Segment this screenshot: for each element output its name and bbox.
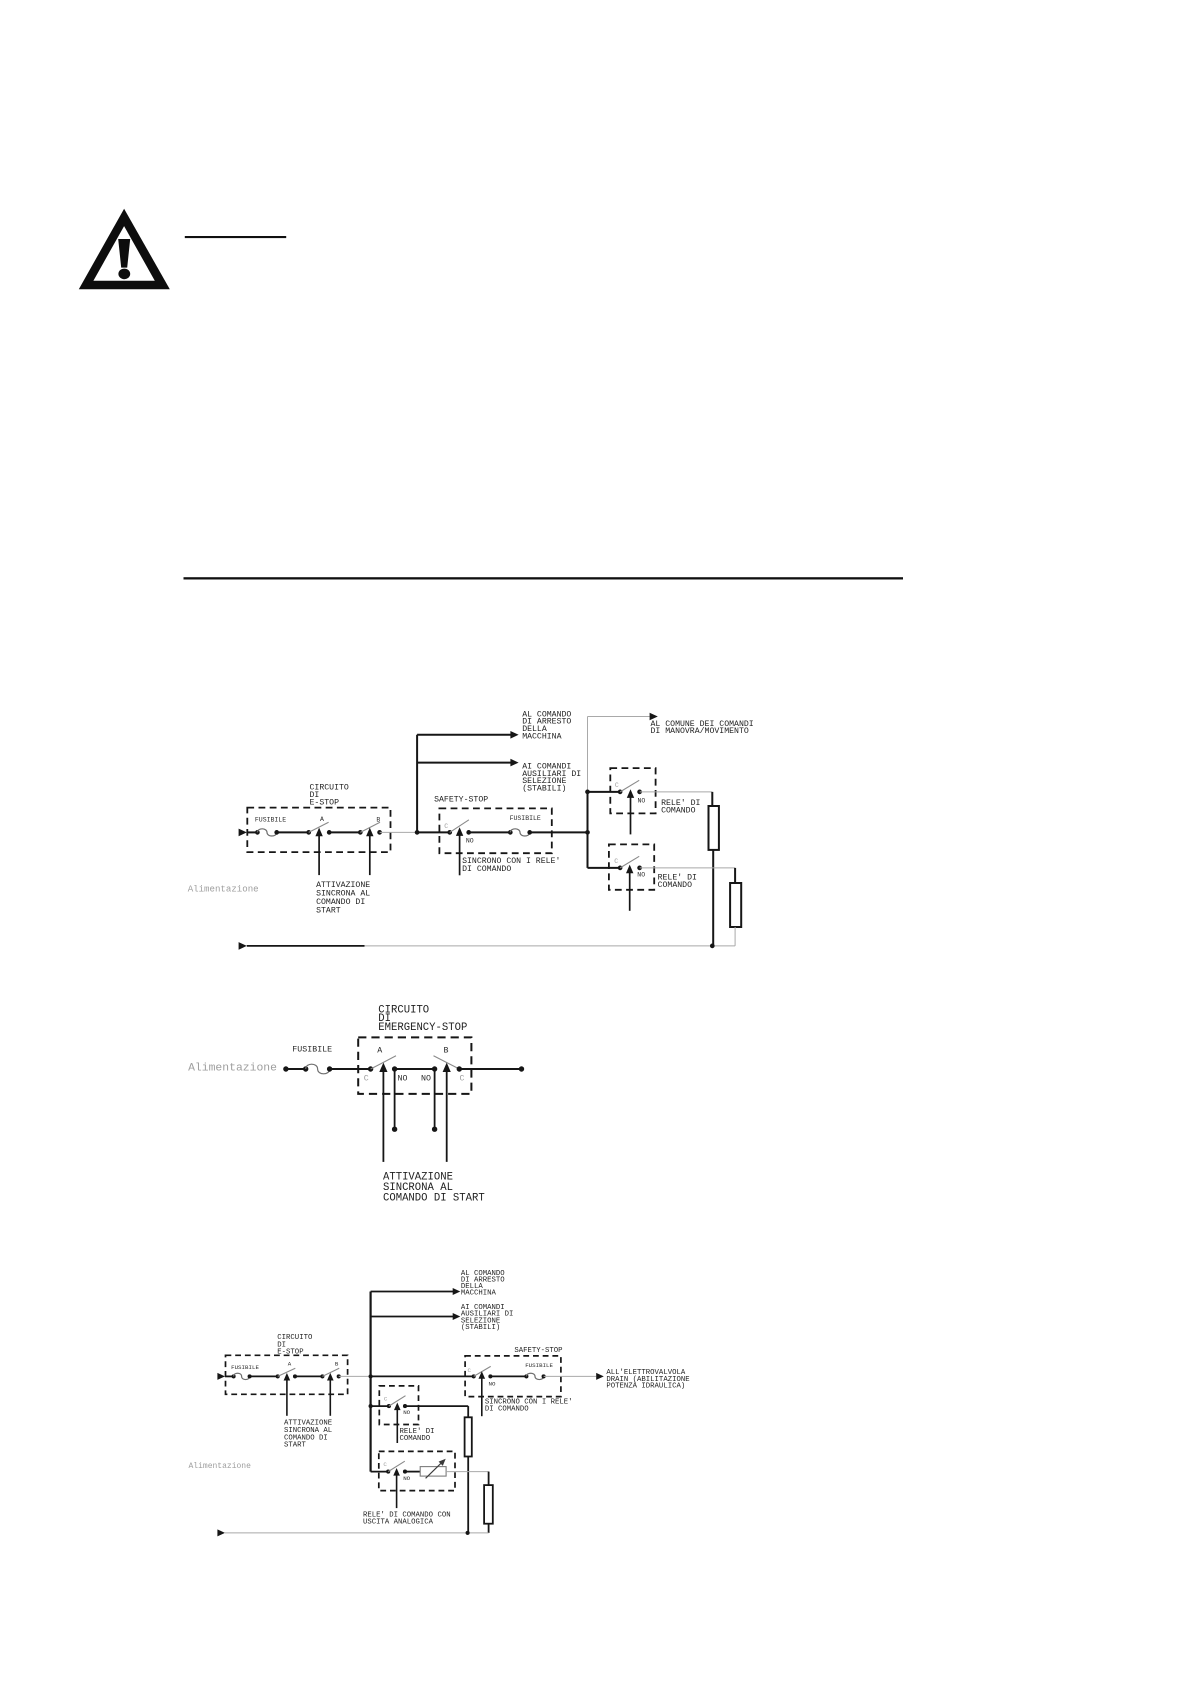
diagram 1: wire SAFETY-STOP fuse to relay node (530, 831, 588, 833)
svg-text:EMERGENCY-STOP: EMERGENCY-STOP (378, 1022, 467, 1034)
diagram 2: output terminal dot (519, 1066, 524, 1071)
diagram 3: E-STOP contact A (276, 1360, 297, 1378)
diagram 2: NO terminal stub of contact B (432, 1069, 437, 1132)
diagram 3: actuation arrow for contact A (284, 1373, 291, 1416)
svg-text:NO: NO (638, 797, 646, 804)
diagram 3: analog relay contact C-NO (383, 1461, 410, 1482)
svg-text:A: A (320, 816, 324, 823)
diagram 2: fuse FUSIBILE (292, 1046, 332, 1074)
diagram 3: wire analog relay contact to potentiometer (405, 1471, 420, 1473)
diagram 3: potentiometer (analog output) (420, 1459, 446, 1479)
svg-text:E-STOP: E-STOP (310, 798, 340, 807)
svg-text:NO: NO (637, 872, 645, 879)
diagram 1: relay node junction on main rail (585, 830, 590, 835)
diagram 1: actuation arrow of command relay 2 contact (626, 865, 633, 911)
diagram 3: fuse FUSIBILE of E-STOP circuit (231, 1364, 259, 1380)
diagram 2: actuation arrow for contact B (443, 1063, 451, 1162)
diagram 3: vertical branch riser wire (370, 1292, 372, 1377)
diagram 1: supply input arrow on top rail (239, 829, 247, 837)
diagram 3: label SAFETY-STOP (514, 1347, 562, 1355)
diagram 3: branch node junction (369, 1374, 373, 1378)
diagram 1: arrow to common of motion commands (650, 713, 658, 721)
svg-text:FUSIBILE: FUSIBILE (510, 815, 541, 822)
svg-text:USCITA ANALOGICA: USCITA ANALOGICA (363, 1519, 434, 1527)
diagram 1: command relay 1 coil (709, 806, 719, 850)
diagram 3: command relay contact C-NO (384, 1396, 411, 1417)
diagram 3: dashed enclosure of command relay contact (379, 1386, 418, 1425)
diagram 1: label RELE' DI COMANDO (relay 2) (658, 873, 697, 891)
diagram 1: Alimentazione supply label (188, 883, 259, 894)
diagram 3: label RELE' DI COMANDO (400, 1428, 435, 1443)
svg-text:FUSIBILE: FUSIBILE (525, 1362, 553, 1369)
svg-text:Alimentazione: Alimentazione (189, 1462, 252, 1471)
svg-text:B: B (335, 1360, 339, 1367)
svg-text:FUSIBILE: FUSIBILE (255, 816, 286, 823)
diagram 3: supply input arrow on top rail (217, 1373, 225, 1380)
diagram 1: label AI COMANDI AUSILIARI DI SELEZIONE (STABILI) (522, 762, 581, 793)
svg-text:C: C (364, 1074, 369, 1083)
diagram 1: actuation arrow for SAFETY-STOP contact (456, 827, 463, 875)
diagram 3: wire SAFETY-STOP contact to fuse (490, 1375, 526, 1377)
diagram 1: gray riser wire to common-command branch (588, 717, 650, 792)
diagram 3: branch wire to auxiliary selection commands (371, 1313, 461, 1320)
diagram 3: wire fuse to contact A (250, 1375, 278, 1377)
diagram 3: wire load resistor to bottom rail (467, 1457, 469, 1533)
diagram 1: dashed enclosure CIRCUITO DI E-STOP (247, 808, 390, 853)
diagram 1: branch node junction (415, 830, 420, 835)
diagram 1: wire to command relay 1 contact (588, 791, 621, 793)
diagram 1: bottom rail junction dot (710, 944, 715, 949)
svg-text:COMANDO DI START: COMANDO DI START (383, 1192, 485, 1204)
svg-text:NO: NO (421, 1074, 431, 1083)
diagram 3: supply return arrow on bottom rail (217, 1529, 225, 1536)
diagram 1: wire top rail into fuse (247, 831, 258, 833)
svg-text:DI COMANDO: DI COMANDO (462, 865, 511, 874)
diagram 2: wire fuse to contact A (330, 1068, 371, 1070)
svg-text:START: START (284, 1442, 307, 1450)
svg-text:COMANDO: COMANDO (661, 807, 695, 816)
warning triangle icon (79, 209, 170, 289)
diagram 1: SAFETY-STOP contact C-NO (444, 820, 474, 845)
svg-text:C: C (615, 782, 619, 789)
diagram 3: actuation arrow for SAFETY-STOP contact (479, 1371, 486, 1416)
diagram 1: wire relay 2 coil to bottom rail (734, 927, 736, 946)
svg-text:COMANDO: COMANDO (400, 1435, 431, 1443)
diagram 3: E-STOP contact B (320, 1360, 340, 1378)
diagram 1: wire to command relay 2 contact (588, 867, 621, 869)
svg-text:B: B (444, 1046, 449, 1055)
svg-text:FUSIBILE: FUSIBILE (231, 1364, 259, 1371)
diagram 3: actuation arrow of command relay contact (394, 1403, 401, 1444)
diagram 3: label SINCRONO CON I RELE' DI COMANDO (485, 1399, 573, 1414)
diagram 2: wire contact A to contact B (395, 1068, 435, 1070)
diagram 3: wire contact B to branch node (339, 1375, 371, 1377)
diagram 2: EMERGENCY-STOP contact A (364, 1046, 408, 1083)
diagram 1: vertical wire between relay branches (587, 792, 589, 868)
diagram 1: junction at command relay 1 branch (585, 790, 590, 795)
diagram 3: dashed enclosure SAFETY-STOP (465, 1356, 561, 1397)
svg-text:C: C (468, 1367, 472, 1374)
svg-text:DI COMANDO: DI COMANDO (485, 1406, 529, 1414)
diagram 3: bottom rail junction dot (466, 1531, 470, 1535)
diagram 1: label AL COMANDO DI ARRESTO DELLA MACCHINA (522, 710, 571, 741)
diagram 1: dashed enclosure of command relay 2 contact (609, 844, 654, 889)
section divider rule (184, 577, 904, 579)
diagram 3: SAFETY-STOP contact C-NO (468, 1366, 496, 1387)
diagram 3: label ALL'ELETTROVALVOLA DRAIN (ABILITAZIONE POTENZA IDRAULICA) (606, 1369, 689, 1390)
diagram 3: label AL COMANDO DI ARRESTO DELLA MACCHINA (461, 1270, 505, 1298)
svg-text:E-STOP: E-STOP (277, 1349, 303, 1357)
diagram 2: Alimentazione supply label (188, 1063, 277, 1075)
svg-text:NO: NO (403, 1409, 410, 1416)
diagram 1: command relay 1 contact C-NO (615, 780, 646, 804)
diagram 2: label ATTIVAZIONE SINCRONA AL COMANDO DI START (383, 1171, 485, 1204)
diagram 1: wire contact B to branch node (380, 831, 418, 833)
svg-text:FUSIBILE: FUSIBILE (292, 1046, 332, 1055)
diagram 3: branch wire to machine-stop command (371, 1288, 461, 1295)
diagram 2: output wire from contact B (459, 1068, 521, 1070)
diagram 1: wire relay 1 coil to bottom rail (712, 850, 714, 946)
diagram 3: wire analog load resistor to bottom rail (488, 1524, 490, 1533)
diagram 1: bottom return rail wire (247, 945, 735, 947)
diagram 3: wire to command relay contact (371, 1405, 389, 1407)
svg-text:B: B (376, 816, 380, 823)
diagram 1: actuation arrow for contact A (315, 828, 322, 876)
diagram 3: dashed enclosure CIRCUITO DI E-STOP (226, 1355, 348, 1394)
diagram 3: fuse FUSIBILE of SAFETY-STOP circuit (524, 1362, 553, 1379)
svg-text:C: C (384, 1396, 388, 1403)
diagram 1: dashed enclosure SAFETY-STOP (439, 808, 551, 853)
svg-text:START: START (316, 906, 341, 915)
svg-text:C: C (460, 1074, 465, 1083)
diagram 3: wire contact A to contact B (295, 1375, 322, 1377)
svg-text:C: C (614, 858, 618, 865)
diagram 3: actuation arrow of analog relay contact (393, 1468, 400, 1508)
svg-text:DI MANOVRA/MOVIMENTO: DI MANOVRA/MOVIMENTO (651, 726, 749, 736)
svg-text:A: A (377, 1046, 382, 1055)
diagram 1: fuse FUSIBILE of SAFETY-STOP circuit (508, 815, 541, 836)
diagram 1: actuation arrow for contact B (366, 828, 373, 876)
diagram 3: actuation arrow for contact B (327, 1373, 334, 1416)
diagram 3: label AI COMANDI AUSILIARI DI SELEZIONE (STABILI) (461, 1304, 514, 1332)
diagram 3: load resistor of command relay (465, 1417, 472, 1456)
svg-text:SAFETY-STOP: SAFETY-STOP (434, 796, 488, 805)
diagram 3: wire relay contact NO to load resistor (405, 1406, 468, 1417)
diagram 3: vertical wire from branch node to relay branches (370, 1376, 372, 1471)
diagram 3: junction at analog relay branch (369, 1404, 373, 1408)
svg-text:NO: NO (466, 838, 474, 845)
diagram 1: E-STOP contact A (306, 816, 331, 835)
diagram 2: label CIRCUITO DI EMERGENCY-STOP (378, 1005, 467, 1035)
svg-text:NO: NO (489, 1381, 496, 1388)
diagram 3: wire input to fuse (225, 1375, 234, 1377)
svg-text:C: C (383, 1461, 387, 1468)
diagram 3: wire branch node to SAFETY-STOP contact (371, 1375, 474, 1377)
diagram 1: wire SAFETY-STOP contact to fuse (469, 831, 511, 833)
diagram 1: supply return arrow on bottom rail (239, 942, 247, 950)
diagram 2: EMERGENCY-STOP contact B (421, 1046, 465, 1083)
diagram 1: wire fuse to contact A (277, 831, 309, 833)
diagram 1: wire contact A to contact B (329, 831, 360, 833)
svg-text:NO: NO (398, 1074, 408, 1083)
title underline rule (185, 236, 286, 238)
diagram 2: dashed enclosure CIRCUITO DI EMERGENCY-STOP (358, 1037, 471, 1094)
diagram 1: fuse FUSIBILE of E-STOP circuit (255, 816, 286, 836)
diagram 2: supply terminal dot (283, 1066, 288, 1071)
diagram 1: command relay 2 contact C-NO (614, 856, 645, 878)
diagram 1: command relay 2 coil (730, 883, 741, 927)
diagram 1: label SINCRONO CON I RELE' DI COMANDO (462, 856, 560, 874)
diagram 3: analog load resistor (484, 1485, 493, 1524)
diagram 3: label RELE' DI COMANDO CON USCITA ANALOGICA (363, 1512, 451, 1527)
diagram 3: Alimentazione supply label (189, 1462, 252, 1471)
svg-text:Alimentazione: Alimentazione (188, 883, 259, 894)
svg-text:A: A (288, 1360, 292, 1367)
diagram 1: dashed enclosure of command relay 1 contact (610, 768, 655, 813)
diagram 1: label ATTIVAZIONE SINCRONA AL COMANDO DI START (316, 881, 370, 915)
svg-text:NO: NO (403, 1475, 410, 1482)
diagram 2: wire terminal to fuse (286, 1068, 306, 1070)
diagram 3: arrow to main electrovalve (596, 1373, 604, 1380)
svg-text:C: C (444, 823, 448, 830)
diagram 2: actuation arrow for contact A (379, 1063, 387, 1162)
svg-text:SAFETY-STOP: SAFETY-STOP (514, 1347, 562, 1355)
diagram 1: wire branch node to SAFETY-STOP contact (417, 831, 450, 833)
diagram 1: label CIRCUITO DI E-STOP (310, 784, 349, 808)
diagram 1: branch wire to machine-stop command (417, 731, 518, 739)
svg-text:(STABILI): (STABILI) (522, 784, 566, 794)
svg-text:(STABILI): (STABILI) (461, 1324, 500, 1332)
diagram 3: bottom return rail wire (225, 1532, 489, 1534)
diagram 1: label SAFETY-STOP (434, 796, 488, 805)
diagram 2: NO terminal stub of contact A (392, 1069, 397, 1132)
svg-text:MACCHINA: MACCHINA (461, 1290, 497, 1298)
diagram 3: output wire to electrovalve (544, 1375, 597, 1377)
svg-text:MACCHINA: MACCHINA (522, 732, 561, 741)
svg-text:Alimentazione: Alimentazione (188, 1063, 277, 1075)
diagram 1: label AL COMUNE DEI COMANDI DI MANOVRA/MOVIMENTO (651, 720, 754, 736)
diagram 3: wire potentiometer to analog load resistor (446, 1472, 489, 1486)
diagram 1: label RELE' DI COMANDO (relay 1) (661, 798, 700, 816)
svg-text:COMANDO: COMANDO (658, 881, 692, 890)
diagram 1: branch wire to auxiliary selection commands (417, 759, 518, 767)
diagram 1: vertical branch riser wire (416, 735, 418, 833)
svg-text:POTENZA IDRAULICA): POTENZA IDRAULICA) (606, 1383, 685, 1391)
diagram 1: E-STOP contact B (358, 816, 382, 834)
diagram 1: wire relay 2 contact NO to coil (640, 868, 736, 883)
diagram 1: wire relay 1 contact NO to coil (640, 792, 713, 806)
diagram 3: label ATTIVAZIONE SINCRONA AL COMANDO DI START (284, 1420, 332, 1450)
diagram 3: dashed enclosure of analog relay (379, 1451, 455, 1490)
diagram 1: actuation arrow of command relay 1 contact (627, 789, 634, 834)
diagram 3: wire to analog relay contact (371, 1471, 389, 1473)
diagram 3: label CIRCUITO DI E-STOP (277, 1334, 313, 1356)
